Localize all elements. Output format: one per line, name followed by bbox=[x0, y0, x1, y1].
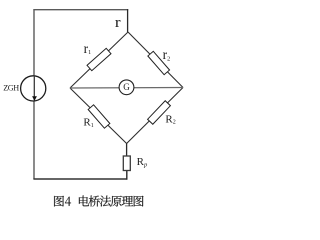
current source U1 circle bbox=[21, 76, 46, 101]
resistor r2 body bbox=[148, 51, 170, 74]
wire bridge arm top-left bbox=[70, 32, 128, 88]
current source U1 arrow bbox=[32, 96, 37, 101]
wire bottom horizontal bbox=[33, 178, 127, 180]
wire bottom node to Rp bbox=[126, 144, 128, 157]
wire left vertical bbox=[33, 9, 35, 179]
current source U1 internal wire bbox=[33, 76, 35, 101]
resistor Rp body bbox=[123, 156, 130, 171]
svg-text:ZGH: ZGH bbox=[3, 84, 19, 93]
resistor r1 body bbox=[87, 48, 111, 70]
caption glyph 桥 bbox=[89, 195, 100, 206]
svg-text:r2: r2 bbox=[163, 47, 171, 62]
svg-text:r1: r1 bbox=[84, 41, 92, 56]
resistor R1 body bbox=[88, 105, 110, 128]
galvanometer G circle bbox=[119, 80, 134, 95]
caption glyph 电 bbox=[79, 196, 89, 207]
caption glyph 图 bbox=[54, 196, 64, 207]
svg-text:r: r bbox=[115, 15, 121, 31]
wire Rp to bottom rail bbox=[126, 170, 128, 180]
caption glyph 理 bbox=[122, 196, 133, 206]
wire bridge arm bottom-right bbox=[127, 88, 183, 144]
caption 图4 电桥法原理图 bbox=[54, 195, 143, 206]
wire bridge arm bottom-left bbox=[70, 88, 127, 144]
wire bridge arm top-right bbox=[128, 32, 183, 88]
svg-text:R2: R2 bbox=[165, 113, 175, 125]
svg-text:R1: R1 bbox=[83, 117, 93, 129]
caption glyph 法 bbox=[100, 196, 111, 207]
caption glyph 图 bbox=[134, 196, 144, 207]
caption glyph 4 bbox=[65, 197, 71, 206]
resistor R2 body bbox=[148, 101, 171, 125]
svg-text:G: G bbox=[123, 82, 130, 92]
caption glyph 原 bbox=[111, 196, 122, 207]
wire galvanometer middle horizontal bbox=[70, 87, 183, 90]
wire top horizontal bbox=[33, 9, 128, 11]
svg-text:Rp: Rp bbox=[137, 156, 148, 169]
wire right vertical (top corner to node r) bbox=[127, 9, 129, 32]
